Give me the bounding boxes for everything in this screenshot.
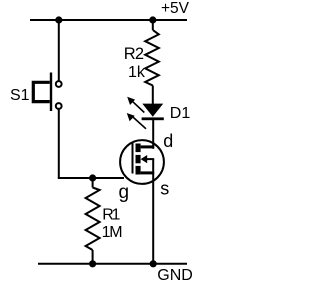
Q1 drain bar bbox=[141, 145, 155, 148]
svg-text:g: g bbox=[119, 182, 130, 203]
Q1 channel segment middle bbox=[136, 155, 141, 163]
svg-text:GND: GND bbox=[157, 267, 193, 284]
svg-text:S1: S1 bbox=[10, 87, 30, 104]
switch S1 bbox=[33, 73, 61, 112]
wire top +5V rail bbox=[30, 19, 187, 21]
wire bottom ground rail bbox=[38, 263, 187, 265]
wire LED cathode to MOSFET drain bbox=[152, 120, 154, 149]
Q1 gate line bbox=[132, 142, 134, 174]
svg-text:R2: R2 bbox=[124, 45, 144, 63]
Q1 channel segment top bbox=[136, 144, 141, 153]
svg-text:R1: R1 bbox=[102, 206, 120, 223]
node junction R1 bottom on ground rail bbox=[89, 260, 96, 267]
LED D1 emission arrow 2 bbox=[127, 113, 146, 129]
resistor R2 bbox=[145, 20, 159, 104]
LED D1 bbox=[142, 104, 164, 121]
Q1 source bar bbox=[141, 171, 155, 174]
svg-text:1k: 1k bbox=[128, 64, 146, 81]
svg-text:d: d bbox=[163, 131, 173, 151]
node junction source on ground rail bbox=[150, 260, 157, 267]
Q1 body arrow head bbox=[141, 155, 148, 163]
node junction S1 branch on +5V rail bbox=[55, 16, 62, 23]
node junction R2 branch on +5V rail bbox=[149, 16, 156, 23]
LED D1 emission arrow 1 bbox=[127, 97, 144, 113]
Q1 body circle bbox=[120, 140, 164, 184]
svg-text:s: s bbox=[160, 178, 169, 198]
Q1 body arrow line bbox=[146, 158, 154, 160]
wire gate net horizontal to MOSFET bbox=[58, 177, 124, 179]
svg-text:+5V: +5V bbox=[161, 0, 190, 17]
svg-text:1M: 1M bbox=[102, 224, 123, 241]
wire MOSFET source down to ground rail bbox=[152, 159, 154, 264]
Q1 channel segment bottom bbox=[136, 166, 141, 175]
wire from +5V rail down to S1 bbox=[58, 20, 60, 81]
svg-text:D1: D1 bbox=[170, 105, 191, 122]
node junction R1 top on gate net bbox=[89, 174, 96, 181]
resistor R1 bbox=[86, 178, 100, 264]
wire from S1 down to gate node corner bbox=[58, 109, 60, 178]
MOSFET Q1 bbox=[120, 140, 164, 184]
